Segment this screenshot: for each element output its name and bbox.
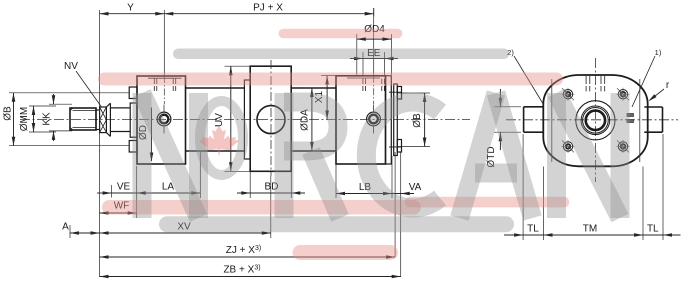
flange body rounded square — [543, 75, 647, 166]
dimension OB right extension lines — [397, 92, 430, 94]
dimension A — [70, 232, 100, 234]
label 2 leader — [514, 56, 544, 105]
svg-text:ØMM: ØMM — [19, 107, 30, 131]
extension line rod end face — [69, 225, 71, 238]
center bore ring 1 — [581, 106, 610, 135]
dimension OTD extension lines — [494, 106, 521, 108]
dimension KK extension lines — [49, 103, 72, 105]
thread root lines — [73, 110, 97, 112]
wrench flats cross pattern upper — [100, 107, 107, 120]
cushion screw marks — [627, 114, 634, 117]
trunnion pin right — [644, 106, 662, 108]
dimension VE — [97, 192, 112, 194]
front head top face inner line — [148, 77, 182, 79]
front head cushion boss top — [129, 87, 137, 99]
svg-text:TM: TM — [583, 224, 597, 235]
dimension LA — [112, 192, 201, 194]
dimension ODA extension lines — [302, 87, 327, 89]
dimension KK — [53, 94, 55, 104]
rear port circle outer — [367, 112, 381, 126]
dimension TL right — [663, 234, 681, 236]
extension line block left — [249, 171, 251, 198]
watermark pink bar OD4 — [283, 29, 397, 39]
watermark gray swoosh top — [178, 49, 504, 60]
svg-text:Y: Y — [127, 3, 134, 14]
dimension TM — [523, 234, 663, 236]
center block vertical centerline — [270, 60, 272, 176]
dimension OTD — [499, 89, 501, 107]
watermark gray swoosh bottom — [167, 216, 506, 232]
extension lines TL TM — [522, 134, 524, 240]
svg-text:NV: NV — [64, 61, 78, 72]
extension line rear flange — [391, 156, 393, 198]
watermark pink swoosh lower right — [410, 197, 564, 208]
rear head tapped holes on top face — [362, 79, 364, 84]
label r leader arrow — [650, 89, 664, 100]
dimension OB left extension lines — [9, 92, 129, 94]
rear head top face inner line — [347, 77, 380, 79]
dimension OMM extension lines — [29, 105, 56, 107]
PJ + X end tick — [373, 8, 375, 17]
front port circle outer — [157, 112, 171, 126]
front port axis centerline in head — [163, 76, 165, 104]
watermark letter R — [275, 93, 294, 218]
dimension UV extension lines — [225, 65, 251, 67]
dimension PJ + X — [164, 13, 373, 15]
rear flange plate — [394, 84, 398, 156]
watermark O ellipse mark — [200, 101, 243, 175]
dimension EE — [362, 52, 364, 75]
right tube barrel bottom — [291, 150, 336, 152]
watermark pink swoosh lower left — [109, 200, 414, 215]
rear port center mark vertical — [373, 105, 375, 113]
svg-text:TL: TL — [647, 224, 659, 235]
bolt hole top right — [618, 90, 627, 99]
center bore thick ring — [586, 111, 605, 130]
right tube barrel top — [291, 87, 336, 89]
tie rod nut top — [397, 87, 401, 100]
rear port axis centerline in head — [373, 76, 375, 104]
front port center mark vertical — [163, 105, 165, 113]
svg-text:PJ + X: PJ + X — [253, 3, 283, 14]
bolt hole bottom left — [563, 142, 572, 151]
dimension OB right — [424, 93, 426, 147]
dimension Y — [100, 13, 165, 15]
svg-text:UV: UV — [214, 113, 225, 127]
dimension BD — [237, 192, 305, 194]
piston rod threaded end KK — [70, 108, 96, 130]
dimension OD leader — [151, 108, 153, 162]
main horizontal centerline — [20, 119, 470, 121]
tie rod nut bottom — [397, 140, 401, 153]
bolt hole bottom right — [618, 142, 627, 151]
dimension ZB + X3 — [100, 276, 401, 278]
extension line head front face — [136, 166, 138, 218]
rod cone flare — [106, 103, 110, 107]
svg-text:ØB: ØB — [412, 113, 423, 128]
center bore ring 2 — [583, 108, 609, 134]
rod outer lines to head — [110, 107, 130, 109]
dimension X1 — [326, 76, 328, 120]
svg-text:VA: VA — [409, 182, 422, 193]
front head cushion boss bottom — [129, 141, 137, 153]
watermark pink capsule ZJ — [300, 245, 391, 260]
dimension X1 extension line — [321, 75, 336, 77]
dimension OMM — [33, 106, 35, 132]
extension line rear head left — [335, 164, 337, 198]
trunnion pin left — [524, 106, 544, 108]
svg-text:ØB: ØB — [3, 106, 14, 121]
svg-text:1): 1) — [655, 48, 662, 57]
wrench flats NV block — [100, 107, 107, 133]
front head tapped holes on top face — [153, 79, 155, 84]
watermark letter N2 — [547, 93, 566, 218]
NV leader line — [76, 71, 102, 107]
rear head block — [336, 76, 386, 164]
label 1 leader — [632, 56, 655, 107]
rear spacer section — [386, 76, 392, 164]
svg-text:TL: TL — [527, 224, 539, 235]
tie rod stub top — [389, 91, 402, 93]
svg-text:VE: VE — [117, 182, 131, 193]
svg-text:KK: KK — [42, 112, 53, 126]
end view horizontal centerline — [506, 119, 678, 121]
front port circle thread — [160, 115, 169, 124]
extension line ZJ datum — [394, 152, 396, 257]
extension line ZB datum — [400, 152, 402, 277]
watermark letter N1 — [133, 93, 152, 218]
dimension ODA — [311, 88, 313, 151]
center block circle — [257, 106, 285, 134]
extension line block right — [290, 171, 292, 198]
head edges behind flange — [551, 79, 553, 162]
front head block — [137, 76, 186, 164]
rod gland boss — [130, 103, 137, 137]
dimension OB left — [13, 93, 15, 146]
extension line LA right — [199, 152, 201, 198]
left tube barrel top — [186, 87, 245, 89]
dimension ZJ + X3 — [100, 256, 396, 258]
bolt hole top left — [563, 90, 572, 99]
center block — [250, 66, 291, 171]
wrench flats cross pattern lower — [100, 120, 107, 133]
watermark letter A — [460, 93, 497, 218]
extension line piston position — [270, 176, 272, 238]
dimension VA — [392, 193, 414, 195]
thread chamfer — [70, 108, 73, 111]
svg-text:ØDA: ØDA — [300, 109, 311, 131]
dimension TL left — [504, 234, 523, 236]
watermark letter C — [366, 102, 440, 208]
rear port circle thread — [369, 115, 378, 124]
dimension XV — [100, 232, 271, 234]
dimension WF — [100, 212, 137, 214]
dimension LB — [336, 193, 392, 195]
extension line front port axis — [163, 10, 165, 76]
watermark maple leaf — [199, 125, 239, 157]
center bore outer circle — [576, 101, 615, 140]
end view vertical centerline — [594, 58, 596, 182]
rear port axis extension — [373, 17, 375, 76]
dimension UV — [230, 66, 232, 171]
dimension OD4 — [356, 34, 358, 75]
flange top tapped port dashes — [585, 76, 587, 84]
watermark pink swoosh upper — [105, 73, 557, 86]
extension line rod shoulder full height — [99, 10, 101, 277]
center spacer plate — [244, 80, 250, 159]
left tube barrel bottom — [186, 150, 245, 152]
svg-text:A: A — [62, 222, 69, 233]
extension line VE — [111, 185, 113, 198]
rod neck — [96, 109, 100, 111]
tie rod stub bottom — [389, 146, 402, 148]
